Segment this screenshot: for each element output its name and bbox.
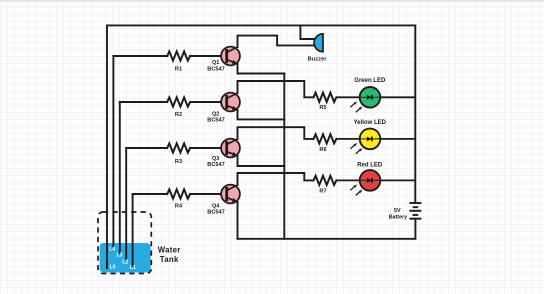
battery BT1 5V [409, 203, 421, 219]
resistor R4 [167, 189, 190, 198]
svg-text:BC547: BC547 [207, 67, 224, 73]
wire Q2 collector to R5 [238, 81, 314, 97]
transistor Q4 [221, 185, 240, 204]
resistor R2 [167, 97, 190, 106]
transistor Q2 [221, 93, 240, 112]
svg-text:R7: R7 [319, 188, 326, 194]
svg-text:R1: R1 [175, 66, 182, 72]
wire Q3 emitter to bus [238, 156, 285, 166]
svg-text:L0: L0 [110, 265, 116, 271]
transistor Q3 [221, 139, 240, 158]
resistor R7 [314, 176, 337, 185]
svg-text:Water: Water [158, 246, 181, 255]
transistor Q1 [221, 47, 240, 66]
water tank outline [98, 212, 151, 274]
resistor R6 [314, 134, 337, 143]
svg-text:R4: R4 [175, 203, 183, 209]
resistor R5 [314, 93, 337, 102]
wire R4 to Q4 base [190, 193, 226, 195]
wire top +5V rail [107, 24, 415, 26]
svg-text:Green LED: Green LED [354, 78, 386, 84]
node L4 probe [112, 56, 114, 247]
svg-text:Buzzer: Buzzer [307, 56, 327, 62]
svg-text:Yellow LED: Yellow LED [354, 120, 387, 126]
svg-text:Tank: Tank [160, 255, 179, 264]
wire Q1 collector to buzzer [238, 36, 315, 47]
wire Q4 emitter to bottom rail [237, 202, 239, 239]
resistor R3 [167, 143, 190, 152]
wire base R1 [113, 55, 167, 57]
svg-text:5V: 5V [394, 208, 401, 214]
node L1 probe [132, 194, 134, 266]
svg-text:L3: L3 [117, 253, 123, 259]
wire base R4 [133, 193, 168, 195]
wire R2 to Q2 base [190, 101, 226, 103]
LED D3 red [336, 170, 415, 195]
wire Q2 emitter to bus [238, 110, 285, 120]
svg-text:L4: L4 [109, 247, 115, 253]
svg-text:BC547: BC547 [207, 210, 224, 216]
wire battery negative to bottom rail [414, 219, 416, 239]
LED D1 green [336, 87, 415, 112]
svg-text:BC547: BC547 [207, 162, 224, 168]
svg-text:R6: R6 [319, 147, 326, 153]
LED D2 yellow [336, 129, 415, 154]
water fill [100, 243, 151, 273]
resistor R1 [167, 51, 190, 60]
svg-text:Battery: Battery [389, 214, 408, 220]
svg-text:Q1: Q1 [212, 60, 219, 66]
node L0 probe [106, 25, 108, 268]
wire emitter bus [283, 74, 285, 239]
svg-text:L2: L2 [122, 259, 128, 265]
wire R1 to Q1 base [190, 55, 226, 57]
wire right rail to battery [414, 25, 416, 203]
wire Q3 collector to R6 [238, 127, 314, 139]
wire base R2 [120, 101, 167, 103]
buzzer BZ1 [314, 34, 323, 52]
svg-text:R5: R5 [319, 105, 326, 111]
node L3 probe [119, 102, 121, 253]
svg-text:R2: R2 [175, 112, 182, 118]
wire Q4 collector to R7 [238, 173, 314, 185]
svg-text:R3: R3 [175, 159, 182, 165]
wire buzzer top pin [300, 25, 315, 39]
wire base R3 [126, 147, 167, 149]
wire bottom rail [238, 238, 416, 240]
svg-text:BC547: BC547 [207, 117, 224, 123]
svg-text:Red LED: Red LED [357, 163, 383, 169]
wire Q1 emitter to bus [238, 64, 285, 74]
wire R3 to Q3 base [190, 147, 226, 149]
svg-text:L1: L1 [130, 265, 136, 271]
node L2 probe [125, 148, 127, 259]
